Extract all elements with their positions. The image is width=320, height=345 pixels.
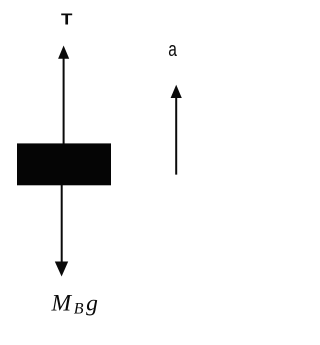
svg-text:T: T (61, 11, 73, 28)
block B (solid black rectangle) (17, 143, 111, 185)
wire: acceleration arrow shaft (175, 98, 177, 175)
wire: tension arrow shaft (upward from block) (63, 58, 65, 145)
wire: weight arrow shaft (downward from block) (61, 184, 63, 263)
acceleration arrowhead (up) (171, 85, 182, 98)
svg-text:a: a (168, 39, 177, 61)
weight arrowhead (down) (55, 262, 68, 277)
tension arrowhead (up) (58, 46, 69, 59)
